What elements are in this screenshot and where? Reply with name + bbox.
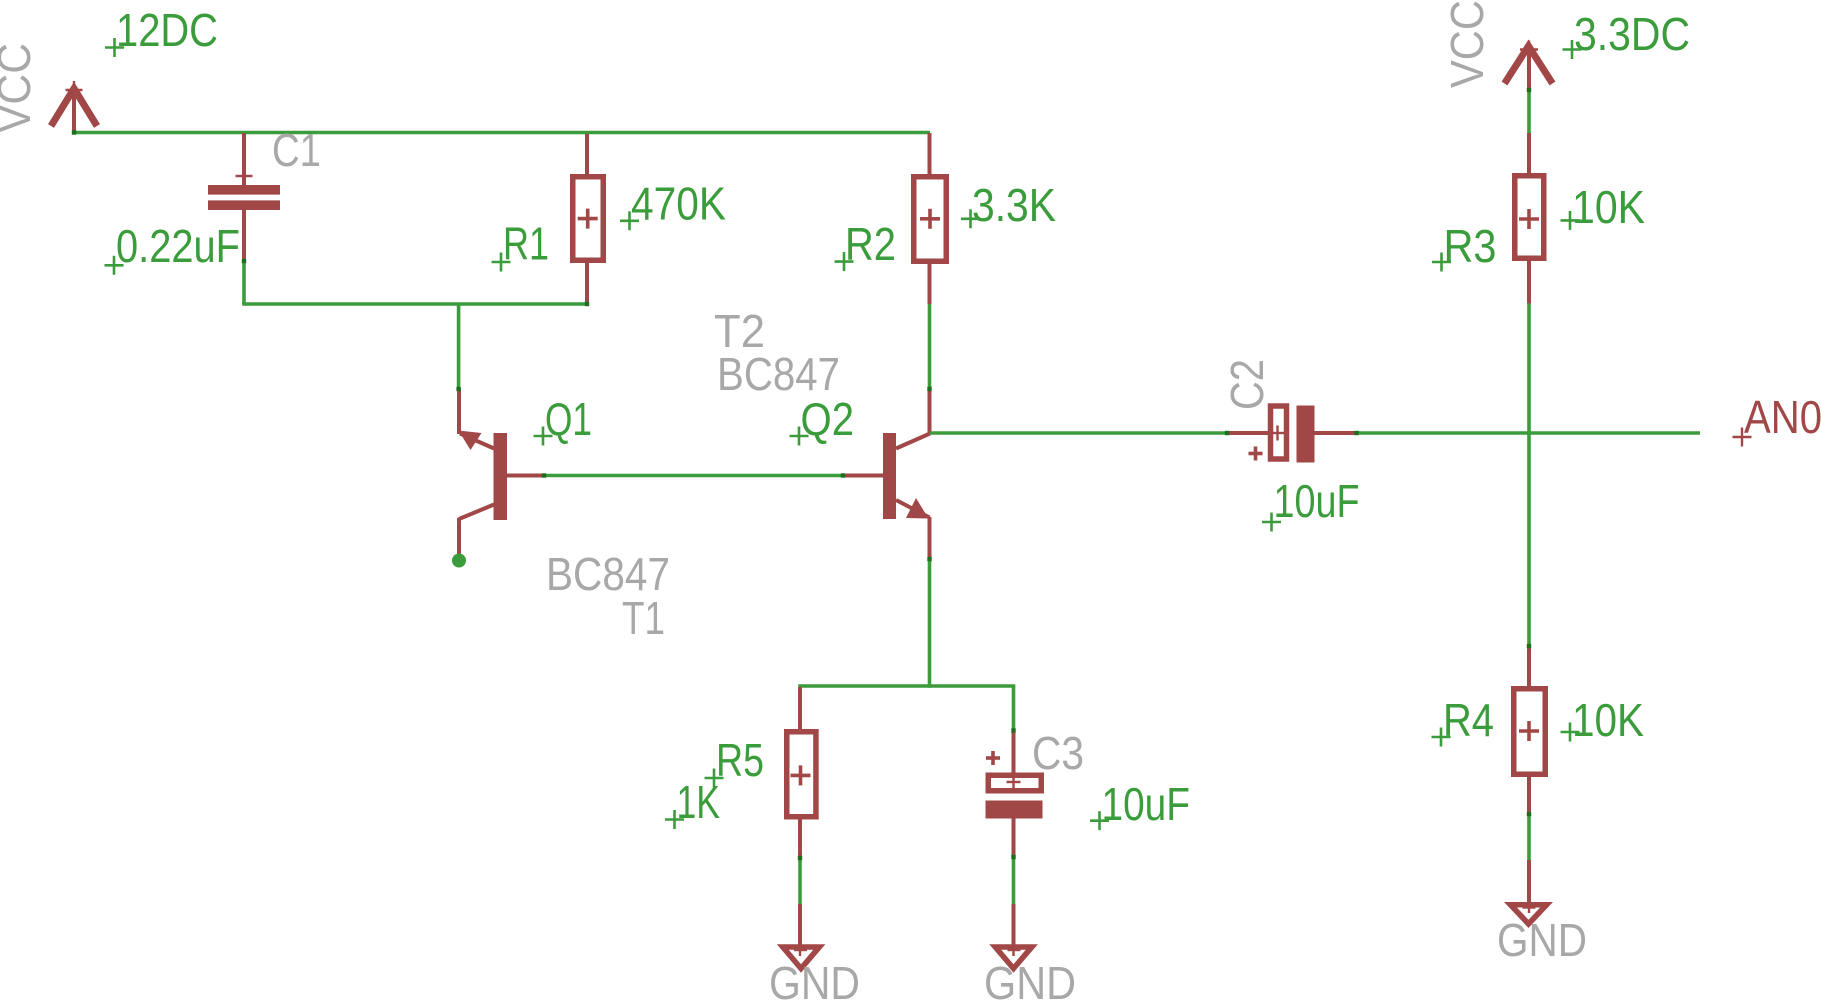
svg-text:10uF: 10uF (1102, 778, 1191, 830)
svg-text:VCC: VCC (1441, 0, 1493, 88)
svg-text:10uF: 10uF (1274, 475, 1360, 527)
wire C3 bottom (1012, 857, 1016, 905)
origin cross of Q1 (534, 427, 553, 446)
capacitor C3 (polarized) (986, 686, 1043, 857)
origin cross of 10K (R4) (1561, 723, 1580, 742)
origin cross of 12DC (105, 38, 124, 57)
svg-text:C2: C2 (1221, 359, 1273, 410)
origin cross of 3.3K (961, 209, 980, 228)
wire end junction markers (72, 88, 1531, 860)
resistor R5 (787, 687, 816, 858)
origin cross of 3.3DC (1563, 40, 1582, 59)
wire VCC rail top (74, 131, 930, 135)
wire R4 to GND (1527, 814, 1531, 861)
svg-text:C1: C1 (272, 124, 321, 176)
wire Q2 emitter down (928, 559, 932, 688)
origin cross of R3 (1432, 253, 1451, 272)
svg-text:GND: GND (1497, 914, 1587, 966)
wire VCC to R3 (1527, 90, 1531, 133)
svg-text:C3: C3 (1032, 727, 1084, 779)
ground symbol GND (R4) (1504, 860, 1553, 928)
wire C1 bottom (242, 261, 246, 304)
svg-text:R3: R3 (1444, 220, 1497, 272)
wire C1 to R1 bottom (242, 302, 587, 306)
origin cross of R4 (1432, 728, 1451, 747)
origin cross of Q2 (790, 427, 809, 446)
wire R2 bottom to Q2 collector (928, 304, 932, 389)
origin cross of 10K (R3) (1561, 211, 1580, 230)
svg-text:GND: GND (984, 957, 1076, 1000)
svg-text:10K: 10K (1572, 694, 1644, 746)
svg-text:3.3DC: 3.3DC (1574, 8, 1690, 60)
wire emitter node horizontal (798, 684, 1015, 688)
origin cross of AN0 (1733, 428, 1752, 447)
origin cross of 1K (665, 810, 684, 829)
origin cross of R5 (705, 769, 724, 788)
wire R3 to R4 (AN0 tap) (1527, 304, 1531, 647)
wire R5 bottom (798, 858, 802, 905)
ground symbol GND (C3) (989, 904, 1038, 973)
svg-text:VCC: VCC (0, 43, 40, 133)
transistor Q1 (T1 BC847) (459, 389, 545, 558)
resistor R3 (1515, 133, 1544, 304)
svg-text:T1: T1 (622, 592, 665, 644)
origin cross of R1 (492, 253, 511, 272)
svg-text:BC847: BC847 (717, 348, 840, 400)
capacitor C1 (208, 133, 280, 261)
svg-text:10K: 10K (1572, 181, 1645, 233)
wire C2 to AN0 net (1357, 431, 1701, 435)
svg-text:Q2: Q2 (801, 393, 855, 445)
resistor R4 (1514, 646, 1546, 814)
wire Q2 collector to C2 (930, 431, 1227, 435)
svg-text:470K: 470K (631, 178, 726, 230)
svg-text:GND: GND (769, 957, 860, 1000)
node junction dot at Q1 emitter (452, 554, 466, 568)
svg-text:0.22uF: 0.22uF (116, 220, 240, 272)
origin cross of R2 (835, 252, 854, 271)
origin cross of 0.22uF (105, 256, 124, 275)
supply symbol VCC (+12V rail) (51, 81, 97, 132)
svg-text:AN0: AN0 (1744, 391, 1821, 443)
origin cross of 10uF (C3) (1090, 811, 1109, 830)
transistor Q2 (T2 BC847) (843, 389, 930, 559)
resistor R2 (914, 133, 947, 304)
origin cross of 470K (620, 211, 639, 230)
capacitor C2 (polarized, horizontal) (1227, 406, 1357, 463)
ground symbol GND (R5) (777, 904, 826, 973)
resistor R1 (573, 134, 604, 304)
svg-text:12DC: 12DC (116, 4, 218, 56)
svg-text:3.3K: 3.3K (972, 179, 1056, 231)
origin cross of 10uF (C2) (1262, 513, 1281, 532)
wire Q1 base to Q2 base (544, 474, 843, 478)
svg-text:R4: R4 (1443, 694, 1494, 746)
supply symbol VCC (+3.3V rail) (1505, 41, 1553, 91)
wire branch down to Q1 (457, 304, 461, 389)
